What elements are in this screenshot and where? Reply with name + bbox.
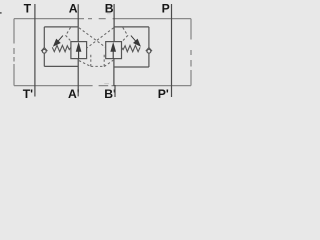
valve V1 spring	[52, 45, 71, 51]
check valve CV2 seat	[146, 48, 152, 52]
wire check CV1 upper vertical	[43, 27, 45, 48]
valve V2 flow arrow	[111, 43, 116, 58]
drain line vertical left	[90, 54, 92, 67]
wire check CV2 upper vertical	[148, 27, 150, 48]
svg-text:T: T	[24, 2, 32, 16]
wire lower branch B' line to check CV2	[114, 66, 149, 68]
valve V1 adjustment arrow	[54, 36, 63, 46]
wire check CV2 lower vertical	[148, 53, 150, 67]
check valve CV1 ball	[42, 49, 46, 53]
pilot hook at valve V2 spring side	[122, 28, 128, 42]
valve V2 adjustment arrow	[131, 36, 140, 46]
pilot hook at valve V1 spring side	[66, 28, 72, 42]
check valve CV1 seat	[41, 48, 47, 52]
wire P to P' through-line	[171, 4, 173, 97]
drain line horizontal bus	[91, 65, 104, 67]
scan speck above top edge	[107, 12, 111, 15]
pilot line A to valve V2	[79, 28, 106, 48]
wire A port down to valve V1	[77, 4, 79, 41]
scan speck above bottom edge	[104, 82, 109, 85]
counterbalance valve V1 body	[71, 42, 87, 59]
subplate outline top edge	[14, 18, 191, 20]
drain line from A' line diagonal	[79, 61, 91, 67]
wire lower branch check CV1 to A' line	[44, 65, 78, 67]
wire check CV1 lower vertical	[43, 53, 45, 66]
scan artifact tick left margin	[0, 12, 2, 14]
svg-text:P': P'	[158, 87, 169, 101]
valve V1 flow arrow	[76, 43, 81, 58]
wire B port down to valve V2	[113, 4, 115, 42]
pilot line B to valve V1	[87, 28, 114, 48]
check valve CV2 ball	[147, 49, 151, 53]
subplate outline right edge	[190, 19, 192, 86]
valve V2 spring	[122, 45, 141, 51]
drain line vertical right	[103, 55, 105, 67]
wire upper branch B to check CV2	[114, 26, 149, 28]
svg-text:B': B'	[104, 87, 116, 101]
svg-text:P: P	[162, 2, 170, 16]
subplate outline bottom edge	[14, 85, 191, 87]
svg-text:T': T'	[23, 87, 33, 101]
wire valve V1 bottom to A' port	[77, 59, 79, 97]
subplate outline left edge	[13, 19, 15, 86]
counterbalance valve V2 body	[106, 42, 122, 59]
drain line diagonal to B' line	[104, 60, 113, 66]
wire T to T' through-line	[34, 4, 36, 97]
wire upper branch A to check CV1	[44, 26, 78, 28]
wire valve V2 bottom to B' port	[113, 59, 115, 86]
svg-text:A: A	[69, 2, 78, 16]
